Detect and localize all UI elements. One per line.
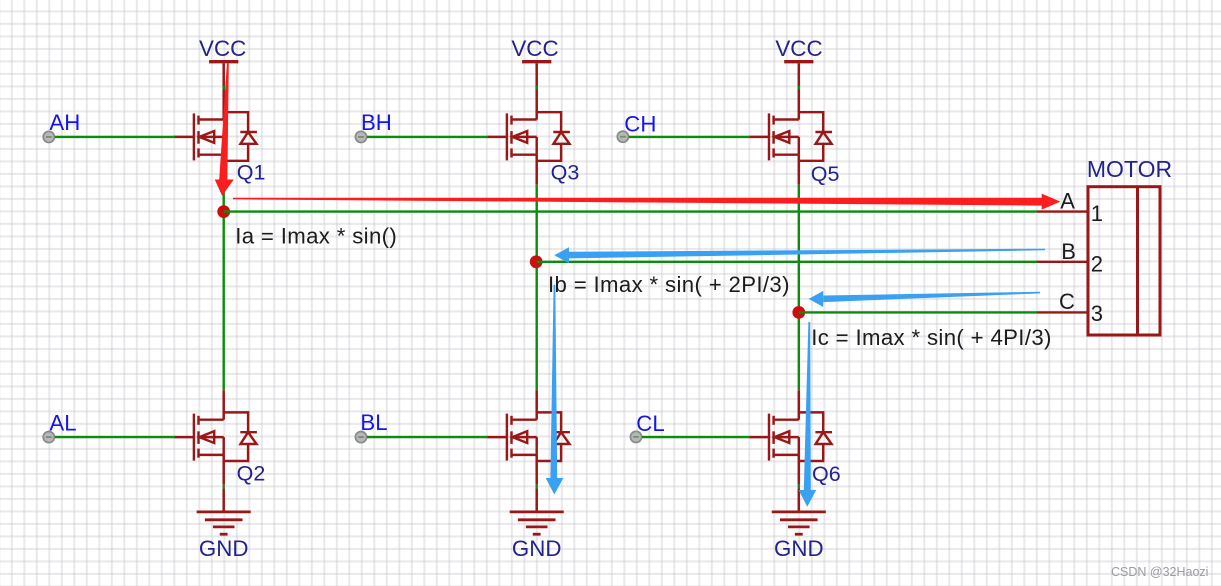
- wire motor pin 1 lead: [1037, 210, 1088, 212]
- wire Q4 source pin: [535, 455, 538, 485]
- wire BH to Q3 gate: [367, 136, 488, 138]
- wire Q4 source to GND: [536, 485, 538, 489]
- input pin BH: [355, 131, 366, 142]
- input pin BL: [355, 432, 366, 443]
- svg-text:GND: GND: [199, 536, 249, 561]
- input pin AL: [43, 432, 54, 443]
- transistor Q1 (NMOS with body diode): [174, 112, 257, 161]
- wire CL to Q6 gate: [642, 436, 750, 438]
- transistor Q3 (NMOS with body diode): [487, 112, 570, 161]
- wire VCC pin to drain (phase B): [535, 86, 538, 90]
- arrow Ia vertical (VCC through Q1 to node A): [215, 64, 234, 196]
- arrow Ib vertical (node B through Q4 to GND): [546, 285, 564, 495]
- wire Q6 source to GND: [798, 485, 800, 489]
- svg-text:C: C: [1059, 289, 1075, 314]
- transistor Q4 (NMOS with body diode): [487, 412, 570, 461]
- arrow Ia horizontal (node A to motor pin A): [233, 194, 1060, 210]
- power port VCC (phase A): [199, 36, 246, 120]
- input pin CH: [617, 131, 628, 142]
- ground symbol GND (phase B): [510, 488, 564, 534]
- wire node C to motor pin 3: [799, 311, 1037, 313]
- svg-text:VCC: VCC: [199, 36, 246, 61]
- arrow Ic vertical (node C through Q6 to GND): [799, 322, 817, 507]
- wire VCC pin to drain (phase A): [222, 86, 225, 90]
- wire Q6 source pin: [798, 455, 801, 485]
- svg-text:GND: GND: [774, 536, 824, 561]
- wire Q1 source pin: [222, 155, 225, 185]
- svg-text:AL: AL: [49, 411, 76, 436]
- svg-text:CSDN @32Haozi: CSDN @32Haozi: [1111, 565, 1208, 579]
- svg-text:Q3: Q3: [551, 161, 580, 185]
- svg-text:BH: BH: [361, 110, 392, 135]
- input pin AH: [43, 131, 54, 142]
- svg-text:CL: CL: [636, 411, 664, 436]
- ground symbol GND (phase A): [197, 488, 251, 534]
- svg-text:Q6: Q6: [812, 462, 841, 486]
- input pin CL: [630, 431, 641, 442]
- wire CH to Q5 gate: [629, 136, 750, 138]
- svg-text:VCC: VCC: [775, 36, 822, 61]
- svg-text:Q1: Q1: [237, 161, 266, 185]
- junction node A: [217, 205, 230, 218]
- wire Q4 drain pin: [535, 390, 538, 419]
- svg-text:GND: GND: [512, 536, 562, 561]
- svg-text:B: B: [1061, 239, 1076, 264]
- svg-text:Q2: Q2: [237, 461, 266, 485]
- arrow Ic horizontal (motor pin C to node C): [809, 291, 1040, 307]
- wire AH to Q1 gate: [55, 136, 175, 138]
- svg-text:MOTOR: MOTOR: [1087, 156, 1172, 182]
- svg-text:3: 3: [1091, 301, 1103, 326]
- wire BL to Q4 gate: [367, 436, 488, 438]
- arrow Ib horizontal (motor pin B to node B): [554, 247, 1045, 263]
- svg-text:2: 2: [1091, 251, 1103, 276]
- svg-text:CH: CH: [624, 112, 656, 137]
- wire node B to motor pin 2: [537, 261, 1037, 263]
- svg-text:BL: BL: [360, 410, 387, 435]
- svg-text:A: A: [1060, 189, 1075, 214]
- power port VCC (phase C): [775, 36, 822, 120]
- svg-text:VCC: VCC: [511, 36, 558, 61]
- junction node B: [530, 255, 543, 268]
- transistor Q6 (NMOS with body diode): [749, 412, 832, 461]
- wire Q6 drain pin: [798, 390, 801, 419]
- wire AL to Q2 gate: [55, 436, 175, 438]
- wire node A vertical: [222, 185, 224, 391]
- svg-text:AH: AH: [49, 110, 80, 135]
- wire Q2 drain pin: [222, 390, 225, 419]
- wire Q5 source pin: [798, 155, 801, 185]
- wire node B vertical: [536, 185, 538, 391]
- transistor Q2 (NMOS with body diode): [174, 412, 257, 461]
- transistor Q5 (NMOS with body diode): [749, 112, 832, 161]
- wire Q2 source pin: [222, 455, 225, 485]
- wire node A to motor pin 1: [224, 210, 1037, 212]
- wire motor pin 2 lead: [1037, 261, 1088, 263]
- ground symbol GND (phase C): [772, 488, 826, 534]
- svg-text:Ic = Imax * sin( + 4PI/3): Ic = Imax * sin( + 4PI/3): [811, 325, 1052, 350]
- svg-text:1: 1: [1091, 201, 1103, 226]
- junction node C: [792, 306, 805, 319]
- wire Q3 source pin: [535, 155, 538, 185]
- svg-text:Q5: Q5: [811, 162, 840, 186]
- wire node C vertical: [798, 185, 800, 391]
- wire Q2 source to GND: [222, 485, 224, 489]
- wire motor pin 3 lead: [1037, 311, 1088, 313]
- power port VCC (phase B): [511, 36, 558, 120]
- svg-text:Ib = Imax * sin( + 2PI/3): Ib = Imax * sin( + 2PI/3): [548, 272, 790, 297]
- svg-text:Ia = Imax * sin(): Ia = Imax * sin(): [235, 224, 397, 249]
- connector MOTOR: [1087, 156, 1172, 335]
- wire VCC pin to drain (phase C): [798, 86, 801, 90]
